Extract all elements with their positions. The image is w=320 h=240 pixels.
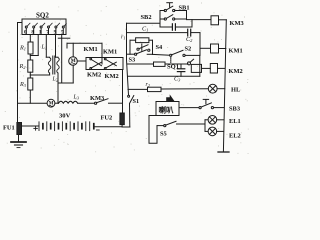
svg-text:r1: r1 bbox=[121, 35, 125, 41]
wire KM3 contact to FU2 node bbox=[109, 102, 123, 104]
svg-text:SQ1: SQ1 bbox=[167, 64, 179, 71]
svg-text:SB1: SB1 bbox=[179, 5, 190, 12]
switch S2 bbox=[170, 45, 200, 56]
wire motor top horizontal bbox=[67, 42, 102, 44]
svg-text:30V: 30V bbox=[59, 113, 71, 120]
capacitor C3 bbox=[174, 64, 185, 83]
svg-text:HL: HL bbox=[231, 87, 240, 94]
svg-text:0: 0 bbox=[24, 29, 27, 35]
motor M1 (drive motor) bbox=[69, 57, 78, 66]
wire HL row from left vertical bbox=[128, 88, 148, 90]
wire into KM contact box top bbox=[101, 43, 103, 64]
switch S5 bbox=[157, 121, 176, 137]
horn box (喇叭) bbox=[156, 102, 179, 116]
wire S1 bottom to battery node bbox=[122, 126, 130, 128]
switch S3 on row bbox=[127, 50, 153, 64]
SQ2 contact 9 bbox=[54, 23, 60, 35]
wire SQ2 to L1 bbox=[45, 35, 47, 58]
wire S5 to lamps split bbox=[177, 123, 206, 125]
wire R2-R3 bbox=[29, 72, 31, 78]
wire block to KM3 coil bbox=[187, 19, 212, 21]
ground (right rail bottom) bbox=[218, 151, 229, 153]
switch S1 (on middle vertical) bbox=[128, 95, 139, 127]
horn icon bbox=[167, 95, 175, 101]
wire L1 bottom drop bbox=[49, 73, 51, 75]
limit switch SQ1 bbox=[167, 59, 194, 70]
transformer L1 winding bbox=[41, 45, 51, 74]
wire FU2 bottom bbox=[121, 125, 123, 127]
wire S3 row to S2 bbox=[153, 53, 170, 56]
svg-text:EL2: EL2 bbox=[229, 132, 241, 139]
svg-text:KM3: KM3 bbox=[230, 20, 244, 27]
svg-text:S5: S5 bbox=[160, 131, 167, 138]
lamp EL1 bbox=[205, 116, 241, 125]
wire motor bottom drop bbox=[72, 65, 74, 83]
wire motor bottom horizontal bbox=[58, 82, 73, 84]
svg-text:KM1: KM1 bbox=[103, 49, 117, 56]
resistor r1 with switch S4 block bbox=[130, 38, 153, 55]
battery 30V bbox=[39, 113, 94, 131]
fuse FU1 bbox=[3, 123, 22, 135]
wire r2 to HL bbox=[161, 88, 208, 90]
svg-text:SB3: SB3 bbox=[229, 106, 240, 113]
wire L2 bottom to bus bbox=[57, 73, 59, 103]
svg-text:L3: L3 bbox=[73, 95, 80, 101]
dashed link S2 to SQ1 row bbox=[170, 58, 172, 63]
svg-text:SQ2: SQ2 bbox=[36, 12, 49, 20]
svg-text:喇叭: 喇叭 bbox=[159, 105, 174, 115]
battery minus sign bbox=[97, 129, 100, 131]
wire C1 right up to KM3 wire bbox=[191, 20, 193, 27]
resistor R2 bbox=[19, 60, 33, 72]
battery plus sign bbox=[34, 127, 38, 131]
contactor KM1/KM2 reversing contact box bbox=[86, 58, 123, 70]
transformer L2 winding bbox=[52, 58, 60, 83]
wire SQ2 down no2 bbox=[37, 35, 39, 56]
svg-text:8: 8 bbox=[31, 29, 34, 35]
wire L2 top stub bbox=[56, 56, 59, 58]
wire R2R3 junction to L1 bottom bbox=[30, 74, 49, 76]
wire main bottom bus bbox=[18, 102, 48, 104]
svg-text:S2: S2 bbox=[185, 45, 192, 52]
pushbutton SB3 bbox=[199, 99, 240, 112]
resistor R1 bbox=[19, 42, 33, 54]
SQ2 contact 8 bbox=[31, 23, 37, 35]
contact KM2 right bbox=[104, 62, 118, 80]
ground (left) bbox=[11, 142, 26, 148]
wire L1 top stub bbox=[46, 56, 49, 58]
transformer core bbox=[53, 56, 55, 74]
contact KM1 left bbox=[84, 46, 102, 66]
wire stub left of motor top bbox=[66, 43, 68, 48]
coil KM3 bbox=[211, 16, 244, 27]
fuse FU2 bbox=[101, 113, 125, 125]
svg-text:S3: S3 bbox=[129, 57, 136, 64]
contact KM3 (main) bbox=[90, 95, 108, 104]
wire R1-R2 bbox=[29, 54, 31, 60]
wire R3 to bottom bus bbox=[29, 90, 31, 103]
wire stub under SQ2 box right bbox=[58, 37, 70, 39]
wire bus M to L3 bbox=[55, 102, 59, 104]
coil KM2 bbox=[202, 64, 243, 76]
wire SQ2 down no4 bbox=[55, 35, 57, 58]
capacitor C1 bbox=[142, 24, 192, 33]
wire motor to KM box bbox=[77, 60, 86, 62]
wire SQ2 down no5 (to motor bottom wire) bbox=[61, 35, 63, 84]
svg-text:1: 1 bbox=[39, 29, 42, 35]
contact KM1 right bbox=[103, 49, 117, 66]
wire left rail bbox=[17, 23, 19, 123]
svg-text:KM3: KM3 bbox=[90, 95, 104, 102]
motor M2 (on bus) bbox=[47, 99, 55, 107]
svg-text:KM2: KM2 bbox=[229, 68, 243, 75]
coil KM1 bbox=[200, 44, 243, 55]
wire bottom bus (battery to fuse node) bbox=[94, 126, 122, 128]
inductor L3 bbox=[59, 95, 80, 104]
pushbutton block left vertical bbox=[159, 11, 161, 28]
SQ2 contact 5 bbox=[61, 24, 66, 36]
resistor R3 bbox=[19, 78, 33, 90]
pushbutton SB1 (top branch) bbox=[160, 3, 190, 12]
svg-text:S1: S1 bbox=[133, 98, 140, 105]
wire SQ2 to R1 bbox=[29, 35, 31, 43]
lamp EL2 bbox=[205, 127, 241, 139]
wire row under C3 bbox=[128, 75, 200, 77]
wire lamp split vertical bbox=[204, 120, 206, 132]
wire S2 vertical lower segment bbox=[199, 55, 201, 76]
wire SQ1 row from left vertical bbox=[128, 63, 154, 65]
pushbutton SB2 (lower branch) bbox=[141, 14, 187, 21]
svg-text:KM2: KM2 bbox=[105, 73, 119, 80]
wire middle left vertical bbox=[127, 23, 129, 95]
svg-text:EL1: EL1 bbox=[229, 118, 241, 125]
lamp HL bbox=[208, 84, 240, 93]
svg-text:KM1: KM1 bbox=[229, 48, 243, 55]
SQ2 contact 7 bbox=[46, 23, 52, 35]
wire left rail top jog bbox=[18, 22, 23, 24]
contact KM2 left bbox=[87, 62, 102, 78]
svg-text:S4: S4 bbox=[156, 44, 164, 51]
SQ1 housing box bbox=[191, 64, 201, 72]
drum switch SQ2 box bbox=[22, 19, 66, 35]
capacitor C2 bbox=[127, 29, 201, 43]
SQ2 contact 1 bbox=[39, 23, 45, 35]
resistor on SQ1 row bbox=[154, 62, 166, 66]
resistor r2 bbox=[146, 82, 162, 92]
wire L3 to KM3 contact bbox=[78, 102, 95, 104]
SQ2 contact 0 bbox=[24, 23, 30, 35]
wire R1R2 junction stub bbox=[30, 55, 38, 57]
wire FU1 to ground bbox=[18, 135, 20, 142]
pushbutton block right vertical bbox=[186, 11, 188, 20]
svg-text:SB2: SB2 bbox=[141, 14, 152, 21]
svg-text:KM1: KM1 bbox=[84, 46, 98, 53]
wire motor top bbox=[72, 43, 74, 56]
svg-text:KM2: KM2 bbox=[87, 72, 101, 79]
wire right rail bbox=[223, 20, 226, 152]
svg-text:FU2: FU2 bbox=[101, 115, 113, 122]
wire horn bottom loop bbox=[149, 116, 157, 144]
svg-text:FU1: FU1 bbox=[3, 125, 15, 132]
drum switch SQ2 label bbox=[36, 12, 49, 20]
wire V1: KM box right edge down to FU2 bbox=[122, 70, 124, 114]
svg-text:L1: L1 bbox=[41, 45, 48, 51]
wire horn to SB3 bbox=[179, 107, 199, 109]
wire top bus (right section) bbox=[127, 22, 161, 24]
wire resistor to SQ1 contact bbox=[165, 63, 188, 65]
wire rail to battery bbox=[18, 125, 40, 127]
wire right middle vertical (C2/KM1/S2) bbox=[199, 33, 201, 56]
switch S4 bbox=[137, 44, 163, 52]
